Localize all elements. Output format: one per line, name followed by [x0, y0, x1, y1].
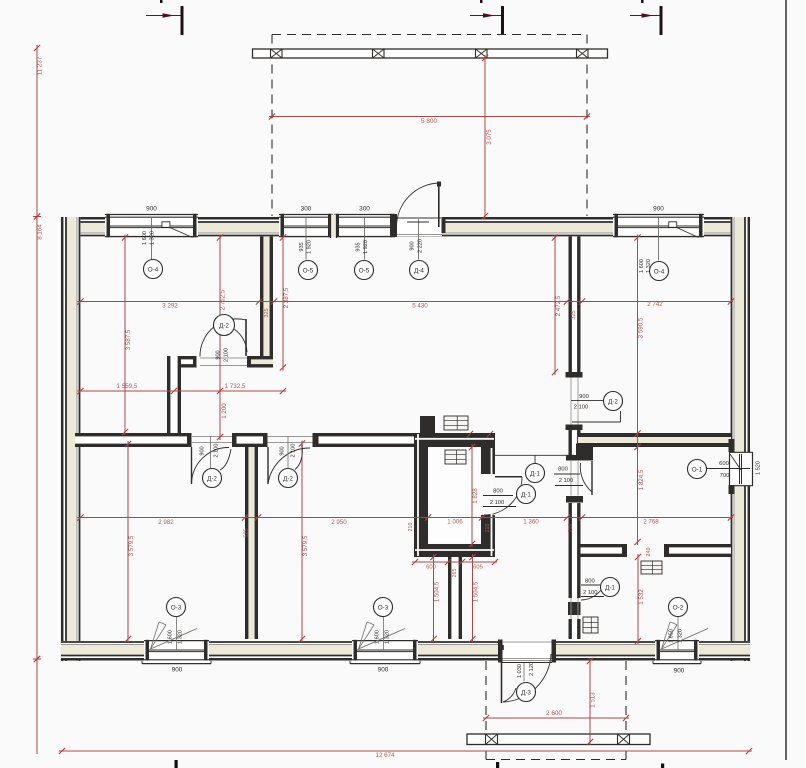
svg-text:2 100: 2 100	[574, 405, 589, 411]
svg-text:800: 800	[493, 489, 503, 495]
svg-text:11 237: 11 237	[37, 56, 44, 75]
svg-text:1 600: 1 600	[142, 231, 148, 245]
svg-text:Д-1: Д-1	[605, 584, 615, 591]
svg-text:900: 900	[378, 667, 389, 674]
svg-text:325: 325	[264, 308, 270, 317]
svg-text:210: 210	[408, 523, 414, 532]
svg-text:О-3: О-3	[171, 604, 182, 611]
svg-text:900: 900	[200, 446, 206, 455]
svg-text:2 387,5: 2 387,5	[283, 287, 290, 308]
svg-text:1 006: 1 006	[447, 519, 463, 526]
svg-text:Д-1: Д-1	[530, 470, 540, 477]
svg-text:900: 900	[410, 241, 416, 250]
svg-text:1 920: 1 920	[363, 240, 369, 254]
svg-text:525: 525	[244, 528, 250, 537]
svg-text:5 430: 5 430	[412, 303, 428, 310]
svg-text:Д-2: Д-2	[219, 322, 229, 329]
svg-text:600: 600	[719, 461, 729, 467]
svg-text:2 762,5: 2 762,5	[220, 289, 227, 310]
svg-text:2 120: 2 120	[529, 662, 535, 676]
svg-text:О-1: О-1	[692, 466, 703, 473]
svg-text:1 559,5: 1 559,5	[117, 383, 138, 390]
svg-text:О-4: О-4	[654, 268, 665, 275]
svg-text:8 164: 8 164	[37, 224, 44, 240]
svg-text:1 650: 1 650	[669, 629, 675, 643]
svg-text:3 587,5: 3 587,5	[125, 329, 132, 350]
svg-text:Д-3: Д-3	[521, 689, 531, 696]
svg-text:900: 900	[653, 206, 664, 213]
svg-text:800: 800	[558, 467, 568, 473]
svg-text:900: 900	[674, 668, 685, 675]
svg-text:1 513: 1 513	[590, 692, 597, 708]
svg-text:1 828: 1 828	[472, 488, 479, 504]
svg-text:1 320: 1 320	[150, 231, 156, 245]
svg-text:2 100: 2 100	[214, 444, 220, 458]
svg-text:900: 900	[280, 446, 286, 455]
svg-text:1 030: 1 030	[517, 664, 523, 678]
svg-text:1 320: 1 320	[385, 630, 391, 644]
svg-text:900: 900	[146, 206, 157, 213]
svg-text:900: 900	[216, 350, 222, 359]
svg-text:О-2: О-2	[673, 604, 684, 611]
svg-text:1 320: 1 320	[678, 629, 684, 643]
svg-text:1 600: 1 600	[639, 259, 645, 273]
svg-text:935: 935	[299, 242, 305, 251]
svg-text:265: 265	[452, 569, 458, 578]
svg-text:249: 249	[646, 547, 652, 556]
svg-text:Д-1: Д-1	[521, 491, 531, 498]
svg-text:3 075: 3 075	[486, 129, 493, 145]
svg-text:3 579,5: 3 579,5	[302, 535, 309, 556]
svg-text:Д-2: Д-2	[608, 398, 618, 405]
svg-text:1 532: 1 532	[638, 589, 645, 605]
svg-text:Д-2: Д-2	[207, 475, 217, 482]
svg-text:935: 935	[356, 242, 362, 251]
svg-text:3 579,5: 3 579,5	[128, 535, 135, 556]
svg-text:О-3: О-3	[378, 604, 389, 611]
svg-text:2 100: 2 100	[559, 478, 574, 484]
svg-text:1 600: 1 600	[375, 630, 381, 644]
svg-text:1 732,5: 1 732,5	[225, 383, 246, 390]
svg-text:Д-4: Д-4	[414, 267, 424, 274]
svg-text:5 800: 5 800	[421, 118, 437, 125]
svg-text:1 504,5: 1 504,5	[473, 581, 480, 602]
svg-text:900: 900	[579, 394, 589, 400]
svg-text:2 982: 2 982	[158, 519, 174, 526]
svg-text:1 600: 1 600	[168, 630, 174, 644]
svg-text:1 504,5: 1 504,5	[434, 581, 441, 602]
svg-text:3 590,5: 3 590,5	[638, 317, 645, 338]
svg-text:2 220: 2 220	[418, 239, 424, 253]
svg-text:2 768: 2 768	[643, 519, 659, 526]
svg-text:2 100: 2 100	[583, 590, 598, 596]
svg-text:1 360: 1 360	[523, 519, 539, 526]
svg-text:2 100: 2 100	[490, 500, 505, 506]
svg-text:210: 210	[568, 524, 574, 533]
svg-text:2 100: 2 100	[291, 444, 297, 458]
svg-text:210: 210	[485, 524, 491, 533]
svg-text:1 520: 1 520	[756, 461, 762, 475]
svg-text:2 742: 2 742	[647, 301, 663, 308]
svg-text:325: 325	[571, 310, 577, 319]
svg-text:О-4: О-4	[148, 266, 159, 273]
svg-text:3 292: 3 292	[162, 303, 178, 310]
svg-text:Д-2: Д-2	[283, 475, 293, 482]
svg-text:1 320: 1 320	[178, 630, 184, 644]
svg-text:1 920: 1 920	[307, 240, 313, 254]
svg-text:1 824,5: 1 824,5	[638, 469, 645, 490]
svg-text:800: 800	[585, 579, 595, 585]
svg-text:1 200: 1 200	[221, 403, 228, 419]
svg-text:О-5: О-5	[359, 267, 370, 274]
svg-text:2 600: 2 600	[546, 710, 562, 717]
svg-text:2 100: 2 100	[224, 348, 230, 362]
svg-text:О-5: О-5	[303, 267, 314, 274]
svg-text:700: 700	[720, 473, 730, 479]
svg-text:12 674: 12 674	[376, 752, 395, 759]
svg-text:300: 300	[301, 206, 312, 213]
svg-text:2 472,5: 2 472,5	[555, 295, 562, 316]
svg-text:2 950: 2 950	[331, 519, 347, 526]
svg-text:605: 605	[473, 565, 483, 571]
svg-text:300: 300	[359, 206, 370, 213]
svg-text:600: 600	[426, 565, 436, 571]
svg-text:900: 900	[172, 667, 183, 674]
